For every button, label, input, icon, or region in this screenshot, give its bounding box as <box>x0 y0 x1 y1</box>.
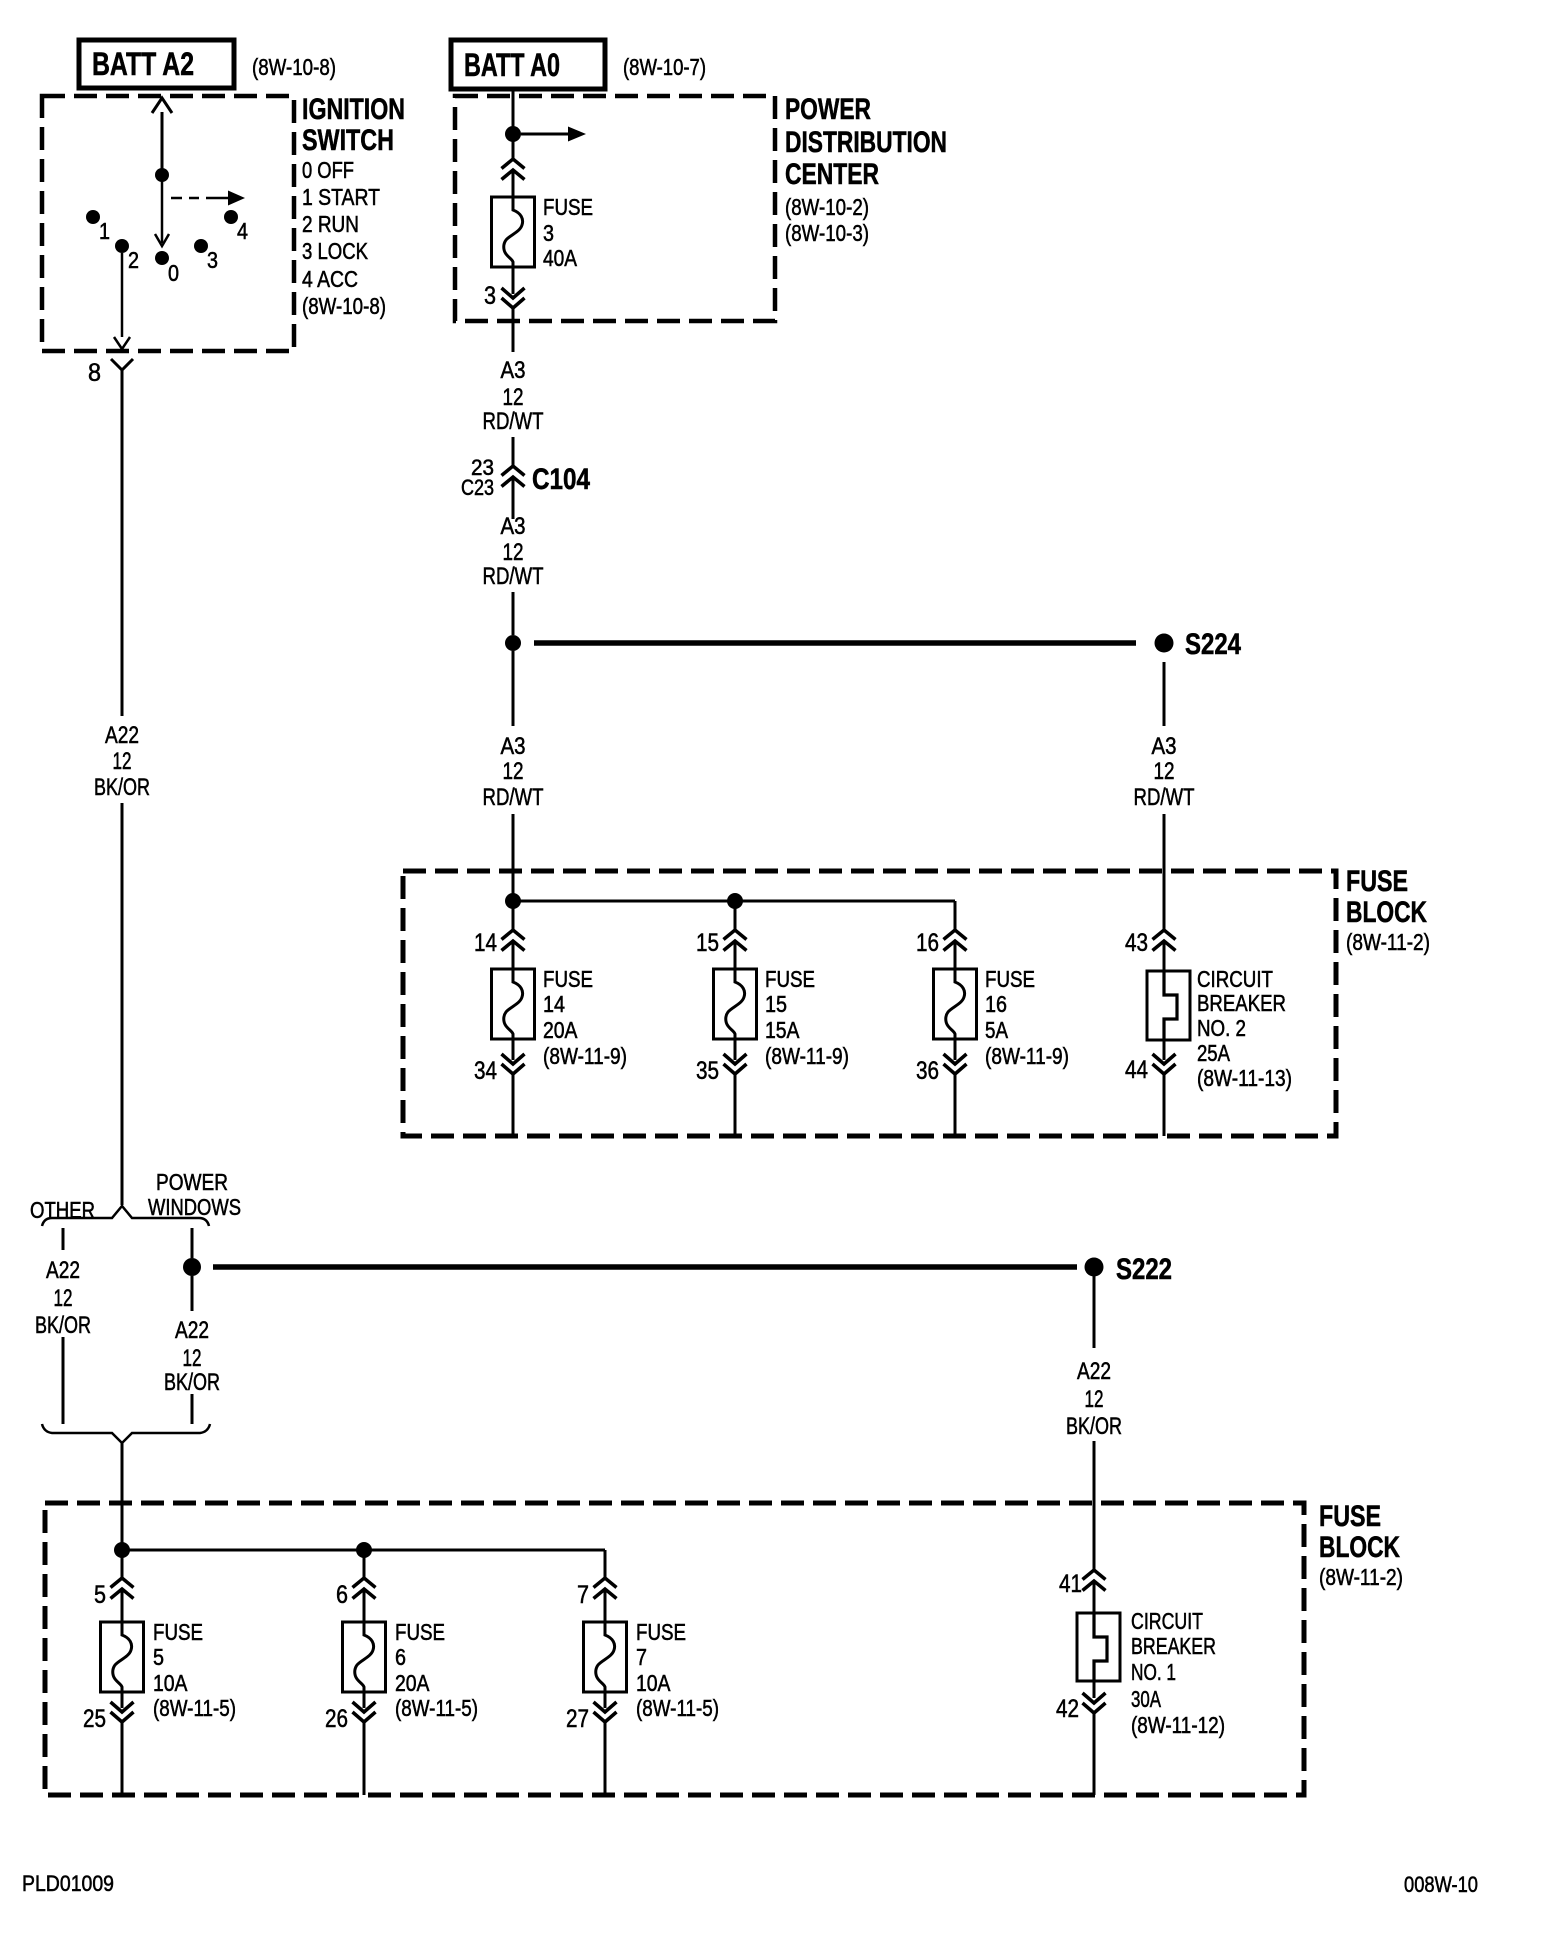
svg-text:6: 6 <box>336 1581 348 1609</box>
svg-text:20A: 20A <box>543 1017 578 1043</box>
ignition switch S1 dashed enclosure <box>42 96 294 351</box>
wire stub POWER WINDOWS branch <box>191 1228 194 1258</box>
pin 41 chevrons above circuit breaker no.1 <box>1059 1570 1106 1598</box>
fuse block label text (upper) <box>1346 865 1430 955</box>
wire label A3 12 RD/WT (right branch) <box>1134 733 1195 811</box>
wire label A22 12 BK/OR (ignition feed) <box>94 722 150 801</box>
svg-text:7: 7 <box>636 1644 647 1670</box>
svg-text:CIRCUIT: CIRCUIT <box>1131 1608 1203 1634</box>
svg-text:35: 35 <box>696 1057 719 1085</box>
svg-text:C23: C23 <box>461 475 494 500</box>
svg-text:4 ACC: 4 ACC <box>302 266 358 292</box>
ignition switch wiper arm with down arrow <box>155 175 169 246</box>
reference (8W-10-7) for BATT A0 <box>623 54 706 80</box>
pin 25 chevrons below fuse 5 <box>83 1692 134 1733</box>
wire from pin 44 to fuse block edge <box>1163 1074 1166 1136</box>
svg-text:5: 5 <box>94 1581 106 1609</box>
svg-text:10A: 10A <box>153 1670 188 1696</box>
svg-text:3: 3 <box>543 220 554 246</box>
wire from pin 35 to fuse block edge <box>734 1074 737 1136</box>
connector chevrons above fuse 3 <box>502 159 525 197</box>
svg-text:7: 7 <box>577 1581 589 1609</box>
svg-text:NO. 1: NO. 1 <box>1131 1659 1176 1685</box>
svg-text:25: 25 <box>83 1705 106 1733</box>
svg-text:CENTER: CENTER <box>785 158 879 191</box>
svg-text:(8W-11-9): (8W-11-9) <box>543 1043 627 1069</box>
svg-text:3: 3 <box>207 247 218 273</box>
svg-text:PLD01009: PLD01009 <box>22 1871 114 1896</box>
svg-text:(8W-11-5): (8W-11-5) <box>153 1695 236 1721</box>
circuit breaker no.1 30A <box>1077 1581 1225 1738</box>
svg-text:26: 26 <box>325 1705 348 1733</box>
svg-text:S222: S222 <box>1116 1253 1172 1286</box>
ignition switch position 2 contact <box>115 239 139 273</box>
wire POWER WINDOWS branch lower segment <box>191 1394 194 1424</box>
svg-text:RD/WT: RD/WT <box>483 563 544 590</box>
ignition switch position 3 contact <box>194 239 218 273</box>
power distribution center label text <box>785 93 947 246</box>
pin 27 chevrons below fuse 7 <box>566 1692 617 1733</box>
svg-text:A3: A3 <box>501 513 526 540</box>
svg-text:(8W-11-12): (8W-11-12) <box>1131 1712 1225 1738</box>
svg-text:A22: A22 <box>1077 1358 1111 1385</box>
svg-text:(8W-11-5): (8W-11-5) <box>636 1695 719 1721</box>
wire OTHER branch lower segment <box>62 1337 65 1424</box>
bus wire inside upper fuse block <box>513 901 955 930</box>
connector half at ignition switch pin 8 <box>111 359 133 382</box>
ignition switch position 1 contact <box>86 210 110 244</box>
svg-text:POWER: POWER <box>785 93 871 126</box>
svg-text:12: 12 <box>503 384 524 411</box>
svg-text:(8W-11-13): (8W-11-13) <box>1197 1065 1292 1091</box>
pin 34 chevrons below fuse 14 <box>474 1039 525 1085</box>
svg-text:FUSE: FUSE <box>153 1619 203 1645</box>
svg-text:A3: A3 <box>1152 733 1177 760</box>
svg-text:36: 36 <box>916 1057 939 1085</box>
wire label A22 12 BK/OR (OTHER branch) <box>35 1257 91 1339</box>
svg-text:CIRCUIT: CIRCUIT <box>1197 966 1273 992</box>
svg-text:14: 14 <box>543 991 565 1017</box>
wire label A3 12 RD/WT (above C104) <box>483 357 544 435</box>
svg-text:C104: C104 <box>532 463 590 496</box>
reference (8W-10-8) for BATT A2 <box>252 54 336 80</box>
wire from pin 36 to fuse block edge <box>954 1074 957 1136</box>
wire segment below connector C104 <box>512 477 515 519</box>
pin 26 chevrons below fuse 6 <box>325 1692 376 1733</box>
wire segment into connector C104 <box>512 437 515 466</box>
svg-text:16: 16 <box>985 991 1007 1017</box>
wire across to splice S222 <box>213 1264 1077 1270</box>
svg-text:NO. 2: NO. 2 <box>1197 1015 1246 1041</box>
merge brace joining branches to fuse block feed <box>42 1424 210 1443</box>
pin 15 chevrons above fuse 15 <box>696 901 747 957</box>
svg-text:42: 42 <box>1056 1695 1079 1723</box>
svg-text:BK/OR: BK/OR <box>94 774 150 801</box>
wire A3 right branch upper segment <box>1163 662 1166 726</box>
circuit breaker no.2 25A <box>1147 941 1292 1091</box>
svg-text:16: 16 <box>916 929 939 957</box>
wire from pin 25 to fuse block edge <box>121 1722 124 1795</box>
wire A22 from ignition switch down (lower segment) <box>121 803 124 1205</box>
svg-text:43: 43 <box>1125 929 1148 957</box>
fuse block dashed enclosure (upper) <box>403 871 1336 1136</box>
svg-text:POWER: POWER <box>156 1169 228 1195</box>
svg-text:A3: A3 <box>501 733 526 760</box>
wire POWER WINDOWS branch below junction <box>191 1276 194 1311</box>
pin 16 chevrons above fuse 16 <box>916 905 967 957</box>
svg-text:A22: A22 <box>105 722 139 749</box>
svg-text:RD/WT: RD/WT <box>1134 784 1195 811</box>
wire label A3 12 RD/WT (below C104) <box>483 513 544 590</box>
svg-text:(8W-10-2): (8W-10-2) <box>785 194 869 220</box>
junction at fuse 5 feed <box>114 1542 130 1558</box>
svg-text:DISTRIBUTION: DISTRIBUTION <box>785 126 947 159</box>
svg-text:1: 1 <box>99 218 110 244</box>
pin 36 chevrons below fuse 16 <box>916 1039 967 1085</box>
connector C104 with pins 23/C23 <box>461 455 590 500</box>
svg-text:12: 12 <box>54 1285 73 1312</box>
svg-text:15A: 15A <box>765 1017 800 1043</box>
junction node feeding splice S222 <box>183 1258 201 1276</box>
fuse F7 10A <box>584 1589 720 1721</box>
pin 6 chevrons above fuse 6 <box>336 1550 376 1609</box>
wire segment down to splice junction <box>512 592 515 635</box>
ignition switch rotation direction dashed arrow <box>171 191 245 206</box>
wire A3 left branch into fuse block <box>512 814 515 901</box>
junction at fuse 6 feed <box>356 1542 372 1558</box>
fuse F16 5A <box>934 941 1070 1069</box>
svg-text:3 LOCK: 3 LOCK <box>302 238 369 264</box>
svg-text:(8W-10-7): (8W-10-7) <box>623 54 706 80</box>
fuse F5 10A <box>101 1589 237 1721</box>
wire A22 from ignition switch down (upper segment) <box>121 382 124 716</box>
svg-text:44: 44 <box>1125 1056 1148 1084</box>
fuse F6 20A <box>343 1589 479 1721</box>
svg-text:BREAKER: BREAKER <box>1131 1633 1216 1659</box>
pin 14 chevrons above fuse 14 <box>474 901 525 957</box>
wire A3 left branch upper segment <box>512 651 515 726</box>
wire A3 leaving PDC <box>512 308 515 352</box>
svg-text:25A: 25A <box>1197 1040 1231 1066</box>
svg-text:FUSE: FUSE <box>543 966 593 992</box>
wire stub OTHER branch <box>62 1228 65 1250</box>
svg-text:10A: 10A <box>636 1670 671 1696</box>
branch label POWER WINDOWS <box>148 1169 241 1220</box>
sheet number 008W-10 <box>1404 1872 1478 1897</box>
svg-text:BK/OR: BK/OR <box>35 1312 91 1339</box>
svg-text:FUSE: FUSE <box>765 966 815 992</box>
svg-text:12: 12 <box>503 539 524 566</box>
drawing number PLD01009 <box>22 1871 114 1896</box>
feed wire from BATT A0 into PDC <box>512 89 515 159</box>
junction node in PDC with branch arrow <box>505 126 586 142</box>
svg-text:1 START: 1 START <box>302 184 380 210</box>
svg-text:BATT A0: BATT A0 <box>464 47 560 83</box>
power feed box BATT A2 <box>79 40 234 88</box>
svg-text:SWITCH: SWITCH <box>302 124 394 157</box>
svg-text:14: 14 <box>474 929 497 957</box>
svg-text:0: 0 <box>168 260 179 286</box>
wire label A22 12 BK/OR (POWER WINDOWS branch) <box>164 1317 220 1396</box>
ignition switch rotor pivot node <box>155 168 169 182</box>
wire from pin 34 to fuse block edge <box>512 1074 515 1136</box>
fuse F3 40A in PDC <box>492 194 594 271</box>
junction node feeding splice S224 <box>505 635 521 651</box>
wire from pin 27 to fuse block edge <box>604 1722 607 1795</box>
svg-text:BK/OR: BK/OR <box>164 1369 220 1396</box>
svg-text:S224: S224 <box>1185 628 1241 661</box>
bus wire inside lower fuse block <box>122 1550 605 1578</box>
svg-text:0 OFF: 0 OFF <box>302 157 354 183</box>
pin 5 chevrons above fuse 5 <box>94 1550 134 1609</box>
svg-text:4: 4 <box>237 218 248 244</box>
connector chevrons below fuse 3 <box>502 267 525 308</box>
svg-text:RD/WT: RD/WT <box>483 784 544 811</box>
svg-text:FUSE: FUSE <box>395 1619 445 1645</box>
fuse F14 20A <box>492 941 628 1069</box>
splice S222 <box>1085 1253 1173 1286</box>
svg-text:41: 41 <box>1059 1570 1082 1598</box>
svg-text:BK/OR: BK/OR <box>1066 1413 1122 1440</box>
svg-text:3: 3 <box>484 282 496 310</box>
pin 3 of PDC <box>484 282 496 310</box>
svg-text:A22: A22 <box>175 1317 209 1344</box>
wire from pin 42 to fuse block edge <box>1093 1713 1096 1795</box>
pin 43 chevrons above circuit breaker no.2 <box>1125 929 1176 957</box>
wire from S222 into lower fuse block <box>1093 1441 1096 1570</box>
svg-text:A3: A3 <box>501 357 526 384</box>
svg-text:12: 12 <box>1085 1386 1104 1413</box>
svg-text:(8W-11-2): (8W-11-2) <box>1319 1564 1403 1590</box>
svg-text:12: 12 <box>113 748 132 775</box>
svg-text:FUSE: FUSE <box>985 966 1035 992</box>
svg-text:(8W-11-2): (8W-11-2) <box>1346 929 1430 955</box>
wire from run contact down to pin 8 with arrow <box>114 253 130 349</box>
svg-text:FUSE: FUSE <box>1346 865 1408 898</box>
svg-text:BATT A2: BATT A2 <box>92 46 194 82</box>
svg-text:12: 12 <box>183 1345 202 1372</box>
svg-text:(8W-10-8): (8W-10-8) <box>302 293 386 319</box>
junction at fuse 14 feed <box>505 893 521 909</box>
pin 35 chevrons below fuse 15 <box>696 1039 747 1085</box>
wire from S222 down (upper segment) <box>1093 1276 1096 1348</box>
ignition switch label text <box>302 93 405 319</box>
pin 42 chevrons below circuit breaker no.1 <box>1056 1681 1106 1723</box>
wire label A3 12 RD/WT (left branch) <box>483 733 544 811</box>
wire across to splice S224 <box>534 640 1136 646</box>
power feed box BATT A0 <box>451 40 605 89</box>
svg-text:2 RUN: 2 RUN <box>302 211 359 237</box>
svg-text:40A: 40A <box>543 245 578 271</box>
junction at fuse 15 feed <box>727 893 743 909</box>
svg-text:FUSE: FUSE <box>543 194 593 220</box>
svg-text:5A: 5A <box>985 1017 1009 1043</box>
svg-text:(8W-10-8): (8W-10-8) <box>252 54 336 80</box>
svg-text:5: 5 <box>153 1644 164 1670</box>
ignition switch feed wire to BATT A2 with up arrow <box>152 98 172 175</box>
splice S224 <box>1155 628 1242 661</box>
svg-text:6: 6 <box>395 1644 406 1670</box>
svg-text:BLOCK: BLOCK <box>1319 1531 1400 1564</box>
ignition switch position 0 contact <box>155 251 179 286</box>
ignition switch position 4 contact <box>224 210 248 244</box>
svg-text:WINDOWS: WINDOWS <box>148 1194 241 1220</box>
wire from pin 26 to fuse block edge <box>363 1722 366 1795</box>
svg-text:(8W-11-9): (8W-11-9) <box>765 1043 849 1069</box>
svg-text:20A: 20A <box>395 1670 430 1696</box>
wire label A22 12 BK/OR (S222 branch) <box>1066 1358 1122 1440</box>
svg-text:BREAKER: BREAKER <box>1197 990 1286 1016</box>
svg-text:(8W-10-3): (8W-10-3) <box>785 220 869 246</box>
svg-text:(8W-11-9): (8W-11-9) <box>985 1043 1069 1069</box>
pin 44 chevrons below circuit breaker no.2 <box>1125 1040 1176 1084</box>
power distribution center dashed enclosure <box>455 96 775 321</box>
svg-text:RD/WT: RD/WT <box>483 408 544 435</box>
svg-text:A22: A22 <box>46 1257 80 1284</box>
pin 8 of ignition switch <box>88 359 101 387</box>
svg-text:008W-10: 008W-10 <box>1404 1872 1478 1897</box>
wire A3 right branch into fuse block <box>1163 814 1166 930</box>
svg-text:27: 27 <box>566 1705 589 1733</box>
fuse block label text (lower) <box>1319 1500 1403 1590</box>
svg-text:15: 15 <box>696 929 719 957</box>
svg-text:FUSE: FUSE <box>636 1619 686 1645</box>
split bracket from ignition feed to branches <box>42 1206 209 1226</box>
svg-text:(8W-11-5): (8W-11-5) <box>395 1695 478 1721</box>
svg-text:30A: 30A <box>1131 1686 1161 1712</box>
svg-text:IGNITION: IGNITION <box>302 93 405 126</box>
svg-text:15: 15 <box>765 991 787 1017</box>
wire from merge brace into lower fuse block <box>121 1443 124 1550</box>
svg-text:BLOCK: BLOCK <box>1346 896 1427 929</box>
fuse block dashed enclosure (lower) <box>45 1503 1304 1795</box>
svg-text:8: 8 <box>88 359 101 387</box>
fuse F15 15A <box>714 941 850 1069</box>
svg-text:34: 34 <box>474 1057 497 1085</box>
svg-text:FUSE: FUSE <box>1319 1500 1381 1533</box>
svg-text:12: 12 <box>1154 758 1175 785</box>
svg-text:12: 12 <box>503 758 524 785</box>
svg-text:2: 2 <box>128 247 139 273</box>
pin 7 chevrons above fuse 7 <box>577 1550 617 1609</box>
branch label OTHER <box>30 1197 95 1223</box>
